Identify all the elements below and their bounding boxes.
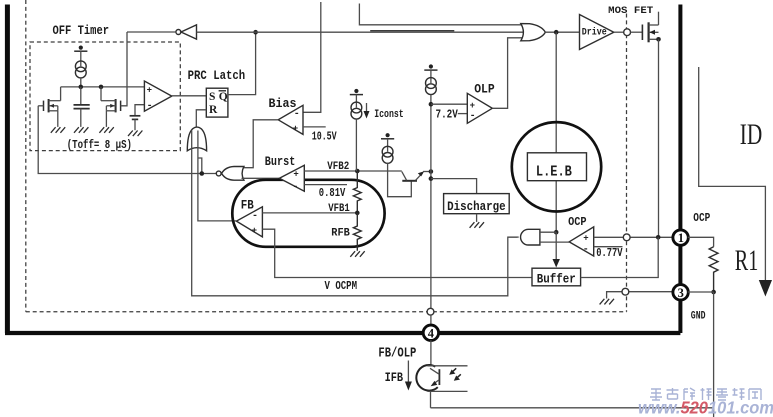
svg-text:Burst: Burst: [265, 154, 296, 169]
svg-text:-: -: [292, 182, 298, 193]
wire latch R input: [196, 110, 206, 127]
label IFB: [385, 371, 404, 385]
label FB/OLP: [378, 346, 416, 361]
label MOS FET: [608, 6, 653, 17]
svg-text:7.2V: 7.2V: [436, 107, 459, 121]
node drive/LEB junction: [554, 30, 559, 35]
label VFB1: [328, 203, 350, 215]
svg-text:-: -: [294, 109, 300, 120]
label R1: [735, 244, 759, 277]
label RFB: [331, 228, 350, 240]
boundary circle OCP net: [623, 234, 630, 241]
node OCP/FET-source junction: [656, 235, 661, 240]
label L.E.B: [536, 163, 572, 180]
IC boundary dashed bottom: [26, 311, 627, 313]
node OLP+ junction: [429, 102, 434, 107]
light arrow 2: [454, 374, 461, 380]
label VFB2: [327, 161, 349, 173]
wire Burst minus 0.81V stub: [304, 184, 347, 186]
label Discharge: [447, 199, 506, 214]
thick source/pin bus (right vertical): [678, 5, 682, 334]
label Iconst: [374, 109, 404, 121]
svg-text:10.5V: 10.5V: [312, 129, 338, 143]
resistor RFB: [353, 213, 361, 251]
wire OLP out to drive OR: [492, 38, 524, 109]
wire R1 bottom down: [713, 292, 715, 417]
svg-text:-: -: [147, 101, 153, 112]
label Toff: [67, 138, 132, 152]
node Qbar/top net junction: [253, 30, 258, 35]
wire U1 out to latch S: [172, 95, 207, 97]
light arrow 1: [449, 368, 456, 374]
svg-text:+: +: [470, 101, 475, 111]
pin 4 (FB/OLP): [423, 325, 438, 340]
ground Q3 source: [99, 127, 113, 133]
wire pin3 internal: [607, 292, 674, 299]
label V OCPM: [325, 280, 358, 293]
wire U3 input jog (from burst NOR): [198, 158, 202, 174]
label Burst: [265, 154, 296, 169]
watermark chinese: [650, 388, 761, 400]
wire U3 input right (from FB comp out): [198, 131, 236, 221]
pin 3 (GND): [673, 285, 688, 300]
label OCP comp: [568, 215, 587, 229]
wire I1 to rail: [80, 78, 82, 87]
wire OCP plus input net: [594, 236, 674, 238]
wire Q2 gate: [38, 105, 43, 107]
wire ID path: [699, 67, 766, 281]
wire U3 input left (from OCP one-shot): [192, 131, 518, 296]
transistor Q2 (OFF timer left MOSFET): [44, 87, 61, 127]
ground Q2 source: [51, 127, 65, 133]
svg-text:MOS FET: MOS FET: [608, 6, 653, 17]
svg-text:+: +: [583, 233, 588, 243]
IC boundary dashed left: [25, 0, 27, 312]
transistor Q3 (OFF timer right MOSFET): [101, 87, 121, 127]
current source I1 (OFF timer): [74, 46, 87, 78]
wire opto emitter to R1 net: [431, 407, 714, 409]
ground internal GND: [600, 299, 614, 305]
Iconst arrow: [364, 103, 370, 119]
ground C2: [128, 131, 142, 137]
inverter U4: [176, 25, 197, 39]
svg-text:R: R: [209, 104, 218, 116]
svg-text:+: +: [252, 226, 257, 236]
watermark url: [638, 398, 773, 417]
ground discharge: [470, 222, 484, 228]
ground C1: [74, 127, 88, 133]
wire Buffer out: [581, 237, 659, 277]
wire pin4 above: [430, 315, 432, 326]
op-amp U5 (Bias comparator): [278, 105, 303, 134]
svg-text:-: -: [252, 211, 258, 222]
op-amp U8 (FB comparator): [236, 207, 262, 237]
svg-text:FB/OLP: FB/OLP: [378, 346, 416, 361]
svg-text:OCP: OCP: [693, 211, 710, 225]
thick ground bus (bottom horizontal): [5, 331, 680, 335]
wire Bias plus 10.5V stub: [303, 126, 326, 128]
wire to FET gate: [631, 31, 643, 33]
svg-text:S: S: [209, 91, 215, 103]
label OFF Timer: [53, 23, 110, 38]
wire stub net A (to Bias minus): [303, 2, 321, 112]
wire Q4 source down to OCP net: [658, 39, 660, 237]
node rail-Q3 junction: [99, 85, 104, 90]
node R1 bottom junction: [711, 290, 716, 295]
label Bias: [269, 96, 297, 111]
wire VFB1 net: [262, 212, 357, 214]
FB block rounded outline: [232, 180, 384, 247]
svg-text:4: 4: [428, 326, 435, 340]
ground RFB: [350, 251, 364, 257]
node VFB1 junction: [355, 211, 360, 216]
svg-text:3: 3: [678, 286, 684, 300]
node rail-cap junction: [79, 85, 84, 90]
resistor Rburst (VFB2-VFB1): [353, 171, 361, 213]
svg-text:1: 1: [678, 231, 684, 245]
wire drive out: [614, 31, 624, 33]
svg-text:RFB: RFB: [331, 228, 350, 240]
Buffer box: [532, 268, 581, 286]
latch U2 (PRC Latch): [206, 88, 228, 117]
node VFB2/Iconst junction: [355, 169, 360, 174]
op-amp U13 (OCP comparator): [569, 227, 594, 256]
wire Bias out to burst NOR: [244, 120, 278, 168]
svg-text:PRC Latch: PRC Latch: [188, 68, 246, 83]
nor-gate U6 (burst NOR, pointing left): [216, 167, 244, 181]
boundary circle pin4 net: [427, 308, 434, 315]
svg-text:ID: ID: [740, 118, 763, 151]
IC boundary dashed right: [626, 14, 628, 312]
svg-text:L.E.B: L.E.B: [536, 163, 572, 180]
label 0.81V: [319, 186, 346, 200]
label GND pin: [691, 310, 706, 322]
svg-text:R1: R1: [735, 244, 759, 277]
svg-text:Drive: Drive: [582, 26, 607, 38]
svg-text:VFB1: VFB1: [328, 203, 350, 215]
svg-text:GND: GND: [691, 310, 706, 322]
current source I4 (OLP): [424, 64, 437, 94]
wire I2 to VFB2: [355, 119, 357, 171]
boundary circle gate net: [624, 29, 631, 36]
current source I2 (Iconst): [350, 89, 363, 119]
svg-text:OFF Timer: OFF Timer: [53, 23, 110, 38]
capacitor C2 (reference): [130, 105, 145, 131]
svg-text:Iconst: Iconst: [374, 109, 404, 121]
label 0.77V: [596, 246, 623, 260]
wire U12 out left: [508, 236, 519, 238]
wire Q3 gate from inverter: [121, 32, 127, 106]
svg-text:+: +: [147, 85, 152, 95]
wire pin4 down: [430, 340, 432, 366]
node Q1 emitter junction: [429, 169, 434, 174]
L.E.B box: [527, 153, 586, 181]
wire U12 bottom to OCP out: [540, 241, 569, 243]
wire OLP plus input: [431, 103, 467, 105]
svg-text:www.520101.com: www.520101.com: [638, 398, 773, 417]
wire Q4 drain: [658, 12, 660, 25]
wire R1 bottom to pin3: [688, 291, 714, 293]
wire OFF-timer rail: [61, 86, 145, 88]
svg-text:V OCPM: V OCPM: [325, 280, 358, 293]
wire Burst out to U6: [242, 177, 280, 179]
boundary circle GND net: [622, 288, 629, 295]
svg-text:(Toff= 8 μS): (Toff= 8 μS): [67, 138, 132, 152]
transistor Q4 (MOS FET): [642, 22, 658, 42]
wire inverter out to Q3 gate: [127, 31, 176, 33]
wire pin1 to R1: [688, 237, 714, 247]
OFF Timer dashed box: [30, 42, 180, 151]
wire stub net B (to drive OR top input): [359, 4, 524, 25]
svg-text:Bias: Bias: [269, 96, 297, 111]
label 7.2V: [436, 107, 459, 121]
svg-text:+: +: [293, 169, 298, 179]
op-amp U1 (OFF timer comparator): [144, 81, 171, 112]
wire latch Qbar up to top net: [228, 32, 256, 94]
wire top net (Qbar to drive OR): [197, 31, 525, 33]
svg-text:-: -: [583, 245, 589, 256]
wire V OCPM net: [262, 229, 532, 277]
wire burst-NOR output net: [38, 106, 216, 174]
L.E.B block circle: [512, 122, 601, 211]
op-amp U9 (OLP comparator): [467, 93, 492, 123]
svg-text:OCP: OCP: [568, 215, 587, 229]
svg-text:OLP: OLP: [474, 82, 495, 97]
svg-text:VFB2: VFB2: [327, 161, 349, 173]
wire OCP minus 0.77V stub: [594, 246, 623, 248]
label ID: [740, 118, 763, 151]
label Buffer: [537, 271, 576, 286]
svg-text:+: +: [293, 124, 298, 134]
transistor Q1 (VFB clamp): [402, 171, 431, 181]
wire VFB2 net: [304, 170, 402, 172]
wire discharge to ground: [476, 214, 478, 222]
one-shot U12 (LEB AND, pointing left): [521, 229, 540, 245]
svg-text:-: -: [470, 111, 476, 122]
svg-text:Q: Q: [219, 91, 228, 103]
wire FB/OLP vertical net: [430, 95, 432, 309]
label Drive: [582, 26, 607, 38]
wire LEB arrow into Buffer: [553, 232, 560, 267]
ID arrowhead: [759, 280, 772, 297]
wire drive node down to LEB: [555, 32, 557, 232]
pin 1 (OCP): [673, 230, 688, 245]
node LEB/one-shot junction: [554, 230, 559, 235]
resistor R1: [709, 247, 718, 292]
IFB arrow: [405, 361, 412, 391]
label OLP: [474, 82, 495, 97]
wire OLP minus 7.2V stub: [458, 113, 468, 115]
node discharge junction: [429, 176, 434, 181]
label OCP pin: [693, 211, 710, 225]
wire I3 to Q1 base: [388, 163, 412, 196]
capacitor C1 (timing): [74, 87, 90, 127]
label PRC Latch: [188, 68, 246, 83]
wire U12 top to LEB node: [540, 231, 556, 233]
or-gate U10 (drive OR): [521, 24, 546, 41]
label 10.5V: [312, 129, 338, 143]
Discharge box: [444, 194, 510, 214]
or-gate U3 (reset OR, pointing up): [187, 127, 206, 151]
svg-text:0.81V: 0.81V: [319, 186, 346, 200]
svg-text:0.77V: 0.77V: [596, 246, 623, 260]
phototransistor Q5 (optocoupler): [416, 365, 467, 408]
node Q4 source junction: [656, 37, 661, 42]
buffer U11 (Drive): [580, 15, 614, 50]
label FB: [241, 197, 254, 212]
current source I3: [381, 133, 394, 163]
wire discharge branch: [431, 179, 477, 194]
thick ground bus (left vertical bar): [5, 5, 10, 334]
svg-text:Buffer: Buffer: [537, 271, 576, 286]
svg-text:Discharge: Discharge: [447, 199, 506, 214]
wire top net dark segment: [370, 30, 454, 32]
node NOR-net junction: [200, 171, 205, 176]
op-amp U7 (Burst comparator): [279, 165, 304, 193]
svg-text:IFB: IFB: [385, 371, 404, 385]
wire U10 out: [545, 31, 579, 33]
